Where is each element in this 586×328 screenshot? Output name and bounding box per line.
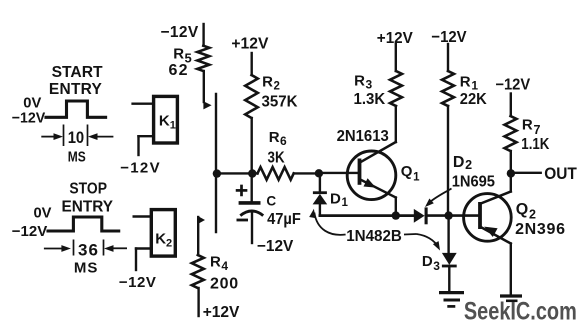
- svg-text:D3: D3: [422, 253, 440, 273]
- resistor R4: [197, 217, 199, 255]
- svg-text:−12V: −12V: [495, 77, 530, 94]
- svg-text:0V: 0V: [34, 205, 52, 222]
- resistor R7: [510, 94, 512, 117]
- svg-text:3K: 3K: [268, 150, 285, 167]
- callout arrow 1N695 to D2: [429, 189, 452, 204]
- diode D2: [414, 209, 425, 223]
- wire K1 lower lead: [139, 135, 154, 137]
- dimension 36 MS: [44, 248, 62, 250]
- svg-text:357K: 357K: [262, 94, 298, 111]
- capacitor C minus sign: [238, 219, 247, 222]
- svg-text:−12V: −12V: [120, 160, 159, 177]
- svg-text:−12V: −12V: [257, 238, 294, 255]
- svg-text:K2: K2: [155, 231, 172, 250]
- svg-text:200: 200: [210, 276, 238, 293]
- wire OUT: [511, 172, 541, 174]
- resistor R3: [395, 44, 397, 71]
- relay K1: [154, 96, 178, 143]
- svg-text:−12V: −12V: [161, 24, 199, 41]
- svg-text:ENTRY: ENTRY: [49, 81, 103, 98]
- wire R6 to D1 node: [294, 172, 319, 174]
- junction D2-R1-Q2 node: [444, 211, 452, 219]
- wire K2 lower lead: [136, 247, 151, 249]
- junction R2-C node: [248, 169, 256, 177]
- svg-text:62: 62: [169, 62, 188, 79]
- svg-text:+12V: +12V: [203, 304, 240, 321]
- resistor R5: [202, 24, 204, 46]
- svg-text:R7: R7: [522, 117, 541, 137]
- resistor R1: [447, 44, 449, 71]
- svg-text:R2: R2: [262, 74, 280, 93]
- svg-text:STOP: STOP: [69, 181, 107, 198]
- wire D2 to Q2 base: [426, 214, 478, 217]
- diode D1: [319, 173, 321, 192]
- svg-text:R6: R6: [269, 129, 287, 148]
- junction bus-armature: [213, 169, 221, 177]
- capacitor C: [250, 173, 252, 201]
- wire K2 upper lead: [134, 215, 152, 217]
- svg-text:2N396: 2N396: [515, 221, 565, 238]
- wire K1 upper lead: [133, 102, 154, 104]
- wire D1 node to Q1 base: [319, 172, 358, 174]
- svg-text:OUT: OUT: [544, 165, 577, 183]
- junction Q1 emitter node: [392, 211, 400, 219]
- waveform STOP ENTRY pulse: [48, 217, 119, 231]
- svg-text:−12V: −12V: [119, 274, 156, 291]
- svg-text:47µF: 47µF: [267, 211, 301, 228]
- transistor Q2: [464, 194, 512, 242]
- svg-text:ENTRY: ENTRY: [62, 199, 114, 216]
- svg-text:−12V: −12V: [12, 223, 48, 240]
- svg-text:R3: R3: [354, 73, 372, 92]
- junction OUT node: [507, 169, 515, 177]
- relay K2: [151, 210, 175, 257]
- callout arrow 1N482B to D1: [314, 213, 345, 235]
- svg-text:22K: 22K: [460, 91, 487, 108]
- dimension 10 MS: [41, 136, 56, 138]
- diode D3: [447, 216, 449, 253]
- svg-text:Q2: Q2: [516, 201, 536, 222]
- resistor R6: [258, 167, 294, 180]
- svg-text:D2: D2: [453, 154, 472, 172]
- svg-text:2N1613: 2N1613: [337, 128, 389, 145]
- ground (below D3): [439, 291, 464, 294]
- capacitor C plus sign: [237, 189, 246, 192]
- relay contact K2 arrow: [198, 216, 205, 224]
- svg-text:+12V: +12V: [231, 36, 268, 53]
- wire bus: [217, 172, 258, 174]
- svg-text:SeekIC.com: SeekIC.com: [464, 298, 577, 326]
- svg-text:−12V: −12V: [12, 110, 46, 127]
- wire D1 to D2: [320, 214, 414, 217]
- svg-text:1.3K: 1.3K: [354, 91, 386, 108]
- svg-text:K1: K1: [159, 113, 176, 132]
- transistor Q1: [347, 151, 396, 200]
- svg-text:1.1K: 1.1K: [521, 136, 550, 153]
- svg-text:1N695: 1N695: [452, 174, 495, 191]
- svg-text:D1: D1: [330, 191, 349, 210]
- svg-text:R1: R1: [460, 74, 479, 93]
- svg-text:R4: R4: [210, 254, 228, 274]
- waveform START ENTRY pulse: [46, 101, 106, 117]
- svg-text:C: C: [266, 194, 276, 209]
- svg-text:36: 36: [78, 241, 98, 260]
- svg-text:START: START: [52, 64, 104, 81]
- svg-text:MS: MS: [68, 149, 86, 166]
- resistor R2: [250, 53, 252, 75]
- wire armature (relay contact line): [215, 94, 217, 232]
- junction D1 node: [315, 169, 323, 177]
- callout arrow 1N482B to D3: [404, 233, 417, 236]
- relay contact K1 arrow: [203, 101, 211, 109]
- ground (below Q2): [500, 294, 522, 297]
- svg-text:Q1: Q1: [401, 163, 420, 184]
- svg-text:10: 10: [68, 128, 85, 147]
- svg-text:MS: MS: [74, 260, 98, 277]
- svg-text:1N482B: 1N482B: [346, 228, 402, 245]
